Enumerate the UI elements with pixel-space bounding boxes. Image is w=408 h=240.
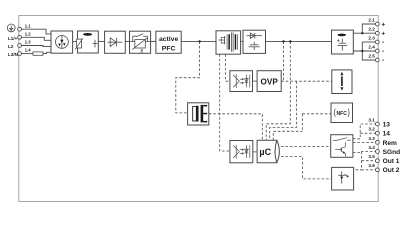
dashed feedback from T1 to opto U8 [226, 54, 230, 81]
wire [151, 40, 156, 42]
svg-text:3.2: 3.2 [368, 127, 375, 132]
dashed j1 drop [283, 41, 285, 81]
terminal 1.2 [18, 35, 22, 39]
svg-text:SGnd: SGnd [383, 149, 401, 156]
dashed relay contact to terminal bus [353, 124, 376, 139]
dashed bus to Out1 Out2 [362, 152, 376, 170]
dashed aux to uC [209, 114, 262, 140]
svg-text:2.1: 2.1 [368, 17, 375, 22]
wire with junction [181, 40, 216, 42]
inrush limiter block U2 [78, 31, 99, 53]
svg-text:2.2: 2.2 [368, 27, 375, 32]
svg-text:-: - [382, 48, 384, 55]
svg-text:OVP: OVP [261, 77, 279, 86]
terminal 2.5 [375, 58, 379, 62]
fuse F1 [33, 52, 43, 55]
svg-text:-: - [382, 39, 384, 46]
active PFC block U5 [156, 31, 181, 53]
svg-text:2.4: 2.4 [368, 44, 375, 49]
terminal 2.4 [375, 49, 379, 53]
microcontroller uC [257, 140, 277, 163]
svg-text:Rem: Rem [383, 140, 397, 147]
svg-text:2.5: 2.5 [368, 53, 375, 58]
wire opto to OVP [253, 80, 258, 82]
wire output plus [353, 32, 375, 34]
input block U1 (input monitoring) [51, 31, 73, 53]
terminal 3.1 [376, 122, 380, 126]
dashed stub to 14 [360, 132, 375, 134]
optocoupler U8 [230, 71, 253, 92]
terminal 3.6 [376, 168, 380, 172]
wire [241, 40, 243, 42]
dashed stub to Rem [353, 141, 376, 143]
terminal 3.3 [376, 141, 380, 145]
wire input L3 [21, 46, 51, 47]
svg-text:3.4: 3.4 [368, 145, 375, 150]
surge protection varistor block U4 [130, 31, 151, 53]
terminal 2.2 [375, 31, 379, 35]
svg-text:3.6: 3.6 [368, 163, 375, 168]
svg-text:14: 14 [383, 131, 391, 138]
ground PE symbol [7, 24, 15, 32]
svg-text:Out 1: Out 1 [383, 158, 400, 165]
wire opto to uC [253, 151, 257, 153]
dashed uC to relay line [281, 146, 331, 148]
svg-text:3.1: 3.1 [368, 117, 375, 122]
node j2 [289, 40, 291, 42]
svg-text:+: + [381, 21, 385, 28]
svg-text:µC: µC [259, 147, 271, 157]
dashed aux Z path [176, 41, 200, 113]
terminal 3.5 [376, 159, 380, 163]
output rectifier block U6 [243, 30, 266, 53]
bottom interface block [332, 167, 354, 190]
dashed h3 from uC to bus [273, 131, 302, 140]
dashed tap from OVP line to h2 [270, 81, 297, 140]
NFC block [331, 103, 353, 123]
DC-OK arrow block [332, 70, 352, 94]
svg-text:+: + [381, 31, 385, 38]
dashed feedback from T1 to opto U9 [220, 54, 230, 151]
svg-text:3.5: 3.5 [368, 154, 375, 159]
dashed NFC line [302, 113, 331, 115]
output filter block U7 [332, 30, 354, 54]
dashed vertical bus [301, 114, 303, 132]
aux transformer block T2 [188, 103, 209, 125]
optocoupler U9 [230, 141, 253, 163]
node [361, 32, 363, 34]
dashed stub to Out1 [362, 160, 376, 162]
svg-text:PFC: PFC [162, 45, 176, 52]
terminal 3.4 [376, 150, 380, 154]
relay / signal block [331, 135, 353, 158]
svg-text:1.1: 1.1 [25, 23, 31, 28]
wire output minus [353, 50, 375, 52]
switching transformer block T1 [216, 31, 241, 54]
terminal 1.3 [18, 44, 22, 48]
dashed uC to interface block line [281, 157, 332, 179]
OVP block [257, 71, 281, 92]
svg-text:3.3: 3.3 [368, 136, 375, 141]
svg-text:Out 2: Out 2 [383, 167, 400, 174]
dashed OVP output line to DC-OK block [281, 80, 332, 82]
wire input L1 [21, 29, 51, 34]
svg-text:1.4: 1.4 [25, 48, 31, 53]
node [361, 50, 363, 52]
svg-text:1.2: 1.2 [25, 32, 31, 37]
svg-text:1.3: 1.3 [25, 40, 31, 45]
svg-text:active: active [159, 36, 178, 43]
wire input L2 [21, 37, 51, 40]
wire [98, 40, 104, 42]
wire DC bus [266, 40, 332, 42]
wire input N with fuse [21, 53, 33, 55]
dashed stub to SGnd [353, 152, 376, 153]
svg-text:ϑ: ϑ [140, 49, 143, 55]
terminal 1.4 [18, 52, 22, 56]
terminal 2.1 [375, 22, 379, 26]
svg-text:L3/N: L3/N [8, 52, 19, 57]
terminal 1.1 [18, 27, 22, 31]
wire [73, 40, 78, 42]
svg-text:13: 13 [383, 121, 391, 128]
wire [125, 40, 129, 42]
node aux tap [198, 40, 200, 42]
terminal 2.3 [375, 40, 379, 44]
rectifier diode block U3 [105, 31, 126, 53]
dashed stub block to Out2 [356, 169, 362, 171]
svg-text:L2: L2 [8, 44, 14, 49]
svg-text:NFC: NFC [337, 111, 348, 117]
enclosure frame [19, 16, 378, 202]
dashed j2 drop to h1 [266, 41, 290, 140]
svg-text:L1/+: L1/+ [8, 36, 18, 41]
svg-text:-: - [382, 57, 384, 64]
terminal 3.2 [376, 131, 380, 135]
svg-text:2.3: 2.3 [368, 35, 375, 40]
node j1 [282, 40, 284, 42]
